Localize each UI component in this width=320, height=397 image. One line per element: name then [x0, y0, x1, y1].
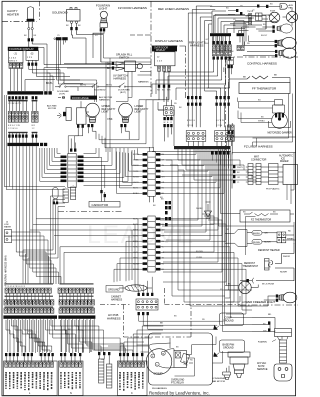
svg-text:Rendered by LeadVenture, Inc.: Rendered by LeadVenture, Inc.	[149, 391, 210, 396]
fountain display title box	[8, 47, 39, 51]
thermistor symbol	[239, 76, 280, 79]
center splice column	[161, 199, 212, 227]
svg-text:AUX: AUX	[289, 4, 294, 7]
r1 bkr connector + service cord + plug	[252, 314, 292, 381]
svg-text:WH/OR: WH/OR	[283, 256, 290, 258]
fuse plug splice	[240, 278, 294, 286]
cavity heater	[7, 7, 34, 48]
water valve coil	[119, 285, 152, 291]
svg-text:FOUNTAIN DISPLAY: FOUNTAIN DISPLAY	[9, 47, 34, 51]
svg-text:PTC RELAY: PTC RELAY	[171, 381, 185, 384]
left connector pin rows (fountain harness)	[7, 100, 47, 147]
extra mid verticals	[166, 160, 268, 306]
small capsule connector below block1	[53, 188, 59, 202]
svg-text:GROUND: GROUND	[108, 288, 120, 292]
wires from bar	[57, 40, 66, 84]
svg-text:DEFROST: DEFROST	[244, 263, 256, 265]
svg-text:CONDENSER: CONDENSER	[212, 378, 226, 380]
svg-text:1 2 3: 1 2 3	[27, 57, 33, 59]
ice maker section	[232, 153, 298, 191]
svg-text:FAN MOTOR: FAN MOTOR	[212, 380, 225, 383]
svg-text:CONTROL HARNESS: CONTROL HARNESS	[247, 62, 277, 66]
damper body	[272, 113, 288, 129]
svg-text:MAKER: MAKER	[280, 160, 289, 163]
wires comp	[149, 338, 193, 368]
svg-text:C: C	[131, 392, 133, 395]
divider fz door / ref liner vertical	[150, 1, 152, 97]
fz light C	[243, 48, 296, 58]
fz fan motor (x-circle)	[244, 12, 280, 25]
defrost heater connectors	[225, 230, 296, 253]
lv pcb connector grid	[136, 277, 223, 329]
wires into module 3 from right	[120, 326, 142, 353]
connector bar	[56, 37, 62, 40]
ref lights connector stack (mid)	[152, 36, 230, 102]
svg-text:FZ THERMISTOR: FZ THERMISTOR	[251, 219, 271, 222]
svg-text:HARNESS: HARNESS	[138, 81, 149, 84]
svg-text:CONNECTOR: CONNECTOR	[251, 158, 267, 161]
fountain light bulb	[100, 11, 107, 18]
svg-text:N: N	[70, 392, 72, 395]
svg-text:RD/WH: RD/WH	[253, 242, 260, 244]
svg-text:HARNESS: HARNESS	[111, 299, 123, 302]
label columns	[4, 372, 52, 379]
svg-text:DEFROST HEATER: DEFROST HEATER	[258, 249, 280, 252]
wires from J1 down	[11, 68, 22, 91]
board bar P1	[210, 33, 231, 36]
svg-text:EVAP: EVAP	[270, 10, 276, 13]
damper wires	[238, 98, 275, 123]
svg-text:(BOT): (BOT)	[120, 92, 126, 94]
fountain display	[8, 47, 151, 96]
lower-left pin row (y≈288)	[5, 286, 94, 298]
pin row A lower half	[8, 117, 11, 122]
svg-text:WH: WH	[268, 15, 272, 17]
ff thermistor	[229, 75, 290, 121]
verticals pins to bar	[9, 137, 36, 143]
wire maze: upper area verticals	[44, 35, 169, 154]
svg-text:CAPACITOR: CAPACITOR	[92, 203, 109, 207]
aux fan connector (top right)	[210, 4, 294, 10]
solenoid body	[67, 10, 81, 22]
control harness left column	[224, 58, 234, 79]
defrost thermostat	[243, 243, 295, 281]
footer	[149, 387, 210, 396]
svg-text:FO: FO	[95, 35, 98, 37]
svg-text:COMP: COMP	[154, 372, 163, 376]
P3 labels	[187, 120, 224, 127]
svg-text:W/ J1 FUSE: W/ J1 FUSE	[262, 284, 275, 286]
fz thermistor	[232, 210, 294, 222]
splash fill switch	[64, 52, 142, 80]
aux fan motor body	[66, 108, 71, 121]
svg-text:WH: WH	[120, 343, 124, 345]
pin row A	[8, 112, 11, 117]
upper block right fan	[156, 150, 224, 194]
center connector block (wire-to-wire)	[61, 139, 84, 188]
splice caps under pcb bar	[211, 151, 230, 155]
grounds	[214, 313, 245, 357]
svg-text:WH/TL: WH/TL	[237, 167, 244, 169]
svg-text:LIGHT: LIGHT	[102, 111, 110, 114]
ref lights stack extra column	[228, 36, 231, 60]
svg-text:FZ DOOR HARNESS: FZ DOOR HARNESS	[118, 6, 147, 10]
staircase bar->block1	[40, 148, 61, 181]
right mini-bundle verticals	[51, 196, 59, 284]
svg-text:W: W	[164, 122, 166, 124]
svg-text:Y/BK: Y/BK	[122, 118, 128, 121]
fz light A	[258, 24, 292, 33]
svg-text:DISPLAY HARNESS: DISPLAY HARNESS	[155, 39, 183, 43]
svg-text:THERMOSTAT: THERMOSTAT	[243, 265, 259, 268]
svg-text:LIGHT: LIGHT	[99, 7, 108, 11]
svg-text:SERVICE: SERVICE	[257, 368, 268, 371]
svg-text:(TOP): (TOP)	[59, 93, 65, 95]
hv pcb long bar	[3, 315, 57, 318]
condenser fan assembly (left of plug)	[228, 352, 251, 378]
svg-text:LIGHT: LIGHT	[135, 111, 143, 114]
lower freezer light divider	[240, 304, 298, 306]
board edge bar	[7, 91, 43, 94]
svg-text:MOTOR: MOTOR	[48, 108, 57, 110]
svg-text:1 2 3: 1 2 3	[157, 60, 163, 62]
svg-text:GY/BK: GY/BK	[196, 257, 203, 259]
left pin row verticals down	[6, 293, 49, 303]
svg-text:BK/WH: BK/WH	[253, 233, 260, 235]
svg-text:PWR: PWR	[224, 67, 226, 72]
mat connector hatched pair	[248, 164, 261, 185]
left border-adjacent verticals	[4, 95, 13, 190]
svg-text:WH/BK: WH/BK	[287, 238, 294, 240]
solenoid	[52, 8, 104, 39]
over door display title box	[152, 46, 177, 52]
svg-text:HARNESS: HARNESS	[114, 76, 127, 80]
capacitor feed wires	[88, 157, 105, 188]
pig tail connector hatched	[261, 164, 278, 185]
jumper strips below block1	[63, 185, 76, 203]
lower block right fan	[157, 214, 246, 314]
defrost heater w fuse circle	[225, 281, 258, 293]
svg-text:REF LINER HARNESS: REF LINER HARNESS	[158, 7, 189, 11]
svg-text:B R G Y: B R G Y	[9, 61, 18, 63]
svg-text:GROUND: GROUND	[223, 347, 234, 350]
cavity heater body	[28, 7, 34, 19]
J1 pins	[9, 63, 12, 68]
wire maze: control cascade down-right	[160, 149, 294, 331]
wire maze: right side verticals	[246, 94, 295, 282]
svg-text:RD: RD	[268, 314, 272, 316]
svg-text:BU/WH: BU/WH	[196, 251, 203, 253]
central connector block lower	[133, 216, 165, 272]
svg-text:FZ LINER HARNESS: FZ LINER HARNESS	[244, 145, 273, 149]
wire maze: bottom area	[6, 293, 163, 356]
over door display	[152, 46, 177, 100]
upper ref light	[86, 103, 100, 122]
ff thermistor box	[239, 83, 290, 94]
top stack	[273, 100, 285, 114]
upper / lower ref lights	[86, 103, 149, 139]
svg-text:1 2 3 4 5 6: 1 2 3 4 5 6	[8, 128, 18, 130]
svg-text:BK/TL: BK/TL	[80, 85, 87, 87]
block1 right staircase to center	[84, 148, 133, 188]
door pan interlock switch	[55, 82, 70, 86]
svg-text:HARNESS: HARNESS	[99, 99, 110, 102]
fountain light	[93, 3, 110, 37]
svg-text:B R: B R	[32, 125, 36, 127]
left fz liner connector stack (x=227-236,y=125-165)	[227, 121, 234, 158]
svg-text:HARNESS: HARNESS	[107, 316, 121, 320]
condenser fan motor	[212, 366, 231, 383]
svg-text:DOOR HINGE: DOOR HINGE	[72, 96, 89, 100]
svg-text:WH: WH	[263, 330, 267, 332]
control board connectors P3 P4	[186, 6, 234, 141]
pin row B with caps	[8, 135, 10, 138]
svg-text:O Y B W: O Y B W	[216, 120, 224, 122]
watermark	[87, 221, 195, 249]
svg-text:R1(BKR): R1(BKR)	[258, 341, 267, 343]
hv header label strips	[5, 283, 94, 307]
control board connector J1 (2x2)	[158, 97, 174, 142]
svg-text:AUX FAN: AUX FAN	[47, 105, 57, 108]
aux fan motor / door hinge	[47, 96, 113, 136]
left pin stack	[233, 165, 235, 168]
fountain board bar 2	[7, 143, 39, 146]
ground near splice	[205, 204, 212, 217]
hv pcb header rows (y≈303-320)	[3, 300, 95, 319]
connector block	[275, 329, 292, 337]
jumper strips	[98, 352, 112, 388]
aux fan capacitor	[57, 113, 61, 118]
block-to-bar stubs	[166, 115, 231, 146]
control board outline box	[214, 16, 267, 34]
display connector box	[155, 52, 176, 66]
divider dash mid-left	[58, 211, 123, 213]
compressor area extra wires	[137, 337, 223, 377]
lower ref light	[119, 103, 133, 122]
wire maze: right column verticals down	[202, 214, 252, 314]
wire maze: left verticals from fountain bar	[9, 146, 65, 284]
ice maker body	[283, 165, 298, 185]
bottom module 1	[4, 353, 58, 396]
solenoid wires	[71, 23, 73, 27]
svg-text:SOLENOID: SOLENOID	[52, 11, 68, 15]
display connector J1	[9, 51, 24, 63]
display pins	[158, 66, 161, 71]
divider cavity heater	[2, 20, 37, 22]
wires from J3	[29, 66, 70, 77]
misc tiny labels texture	[24, 6, 272, 346]
bottom module 3	[118, 353, 148, 396]
svg-text:PIG PLASTIC: PIG PLASTIC	[266, 188, 280, 191]
svg-text:SWITCH: SWITCH	[119, 55, 129, 59]
svg-text:WATER: WATER	[4, 226, 12, 229]
motor assembly right	[77, 108, 87, 124]
divider display harness	[130, 34, 151, 36]
extra verticals under hv bar	[8, 319, 124, 353]
compressor circle	[146, 349, 172, 375]
bowtie connector	[116, 62, 125, 71]
capacitor label	[89, 188, 120, 207]
J3 pins	[29, 60, 36, 63]
svg-text:FF THERMISTOR: FF THERMISTOR	[252, 87, 277, 91]
svg-text:RD/WH: RD/WH	[280, 272, 287, 274]
switch body	[125, 61, 136, 71]
wires below heater	[29, 22, 32, 28]
yd connector bar (fz door)	[29, 37, 101, 84]
P3 block	[186, 131, 234, 142]
tiny labels	[8, 125, 35, 130]
fountain board edge bar	[7, 91, 51, 101]
wires left of switch	[64, 63, 112, 68]
control board edge bars	[206, 8, 278, 57]
svg-text:1 2 3 4 5 6 7 8 9 0 1 2 3: 1 2 3 4 5 6 7 8 9 0 1 2 3	[5, 286, 25, 288]
door hinge label box	[58, 97, 65, 99]
lower freezer light bulb	[264, 292, 297, 303]
wires down from bars	[213, 36, 243, 56]
board bar P2	[237, 33, 245, 36]
service cord hatched strip	[280, 340, 287, 363]
caps row under bar	[8, 96, 10, 99]
svg-text:WH HARNESS: WH HARNESS	[152, 387, 167, 390]
upper block left fan: from above wires	[117, 148, 143, 193]
inverter box + compressor	[146, 333, 212, 385]
overload ptc relay	[174, 351, 187, 368]
evap fan motor	[270, 8, 298, 25]
svg-text:1 2 3 4: 1 2 3 4	[216, 125, 223, 127]
svg-text:CABINET: CABINET	[111, 296, 122, 299]
svg-text:SOLENOID: SOLENOID	[94, 90, 106, 92]
bottom module 2	[59, 353, 84, 396]
long cross horizontals mid-left	[30, 219, 138, 236]
svg-text:LOWER FREEZER LIGHT: LOWER FREEZER LIGHT	[242, 300, 275, 304]
verticals from hv bar down to modules	[6, 320, 53, 356]
pins under	[278, 337, 289, 340]
svg-text:B R G Y O W: B R G Y O W	[8, 125, 20, 127]
svg-text:HEATER: HEATER	[7, 12, 20, 16]
svg-text:1 2 3 4: 1 2 3 4	[9, 58, 16, 60]
low water connector (left edge)	[4, 222, 12, 243]
interlock wires	[25, 65, 151, 91]
hv pcb divider	[100, 288, 240, 337]
svg-text:LEADVE: LEADVE	[87, 221, 195, 249]
module label textures	[5, 372, 143, 391]
svg-text:M: M	[162, 353, 164, 355]
svg-text:WH/BU: WH/BU	[258, 121, 265, 123]
verticals between rows	[9, 101, 36, 111]
top-right small wiring bits	[228, 11, 249, 46]
left edge connector wires	[12, 232, 49, 240]
tiny wire labels row	[8, 100, 24, 106]
svg-text:WH: WH	[230, 51, 234, 53]
motorized damper	[232, 98, 296, 138]
section labels	[106, 6, 277, 321]
lower block left fan	[60, 219, 143, 282]
svg-text:BK/TL: BK/TL	[106, 85, 113, 87]
wires up from bar	[212, 11, 277, 56]
fz light B	[237, 36, 296, 51]
central connector block upper	[133, 147, 165, 202]
control harness divider	[225, 45, 227, 150]
main pcb bar	[152, 110, 231, 152]
plug face	[274, 364, 292, 381]
svg-text:FAN: FAN	[289, 6, 294, 9]
display connector J3	[26, 51, 39, 61]
svg-text:BU/GY: BU/GY	[261, 35, 268, 37]
svg-text:FOUNTAIN HARNESS (WH): FOUNTAIN HARNESS (WH)	[5, 255, 8, 286]
wire fans for central blocks	[60, 148, 246, 314]
svg-text:DISPLAY: DISPLAY	[156, 49, 166, 52]
